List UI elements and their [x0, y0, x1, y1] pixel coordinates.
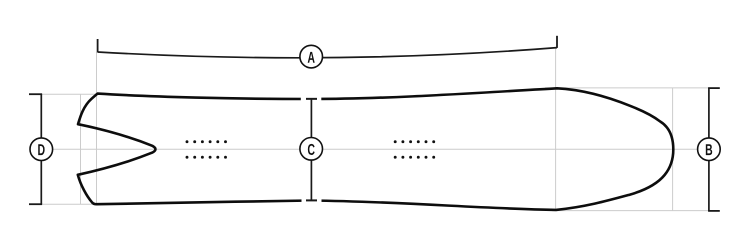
label letter D [38, 144, 44, 155]
dimension B bracket line [708, 88, 710, 211]
guide line: nose bottom width guide [552, 210, 709, 212]
dimension B top tick [708, 87, 720, 89]
label circle D [30, 138, 53, 161]
dimension B bottom tick [708, 210, 720, 212]
label circle A [300, 45, 323, 68]
label letter B [706, 144, 712, 155]
guide line: vertical at nose widest point [555, 48, 557, 211]
label letter C [308, 144, 315, 155]
guide line: nose top width guide [545, 87, 709, 89]
white gap in top edge at waist for C tick [301, 96, 322, 103]
dimension C line [310, 99, 312, 200]
dimension D bottom tick [29, 203, 42, 205]
guide line: vertical at tail fork tips [80, 94, 82, 204]
insert dots group 1 (tail side) [186, 140, 227, 158]
dimension A left tick [97, 39, 99, 52]
insert dots group 2 (nose side) [394, 140, 435, 158]
dimension D top tick [29, 93, 42, 95]
dimension A right tick [556, 36, 558, 48]
label circle C [300, 138, 323, 161]
guide line: tail bottom width guide [29, 203, 96, 205]
label circle B [698, 138, 721, 161]
dimension C bottom tick [306, 199, 317, 201]
white gap in bottom edge at waist for C tick [302, 197, 322, 204]
guide line: vertical at nose tip [672, 88, 674, 211]
guide line: vertical at tail widest point [96, 52, 98, 204]
snowboard outline [78, 88, 674, 210]
dimension D bracket line [40, 94, 42, 204]
label letter A [308, 52, 315, 63]
dimension C top tick [306, 98, 317, 100]
guide line: tail top width guide [29, 93, 98, 95]
guide line: horizontal centerline [41, 148, 709, 150]
dimension A bracket line [98, 48, 557, 58]
